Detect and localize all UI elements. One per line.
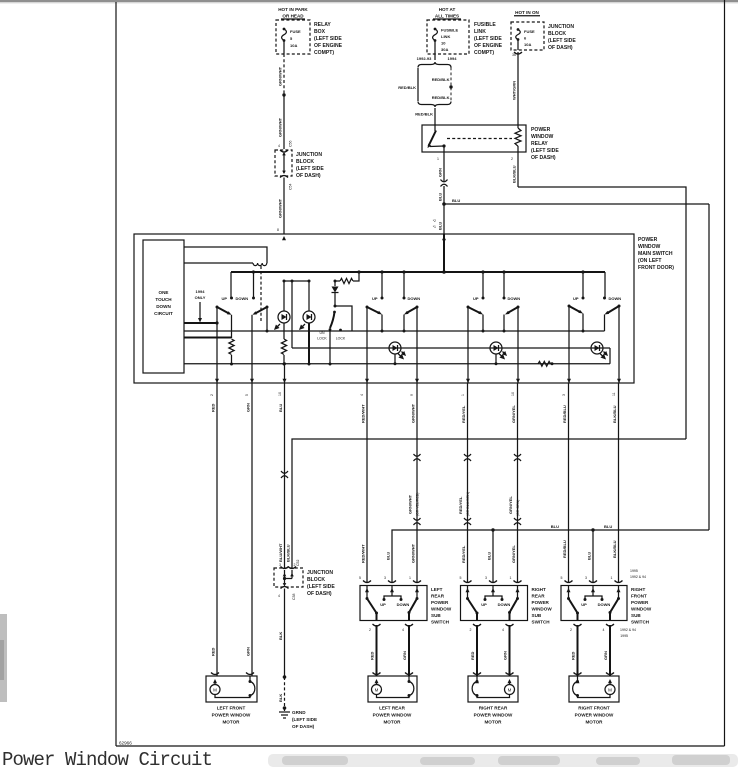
svg-text:ONE: ONE: [159, 290, 169, 295]
fusible link label: [474, 22, 503, 56]
svg-text:POWER: POWER: [531, 127, 551, 133]
svg-text:FUSIBLE: FUSIBLE: [474, 22, 496, 28]
svg-text:RED: RED: [211, 647, 216, 656]
svg-text:C52: C52: [296, 560, 300, 566]
wire GRN/YEL: [508, 383, 521, 583]
svg-text:M: M: [608, 688, 612, 693]
svg-text:JUNCTION: JUNCTION: [307, 570, 333, 576]
svg-text:GRN/YEL: GRN/YEL: [508, 496, 513, 514]
svg-text:LEFT: LEFT: [431, 587, 443, 592]
svg-text:62966: 62966: [119, 741, 132, 746]
svg-text:HOT IN ON: HOT IN ON: [515, 10, 539, 15]
relay coil: [515, 125, 521, 152]
wire BLU: [438, 186, 445, 204]
wire RED right rear motor: [470, 625, 477, 676]
svg-text:4: 4: [603, 628, 605, 632]
svg-text:MAIN SWITCH: MAIN SWITCH: [638, 251, 673, 257]
svg-text:UP: UP: [481, 602, 487, 607]
main bus: [231, 271, 605, 273]
svg-text:BLK: BLK: [278, 694, 283, 702]
diagram frame right border: [724, 0, 726, 746]
1994 ONLY note: [195, 289, 206, 323]
svg-text:(LEFT SIDE: (LEFT SIDE: [307, 584, 335, 590]
svg-text:BLU: BLU: [438, 222, 443, 230]
left rear sub switch label: [431, 587, 452, 625]
svg-text:BLOCK: BLOCK: [548, 31, 566, 37]
relay label: [531, 127, 559, 161]
wire GRN left rear motor: [402, 625, 409, 676]
svg-text:Power Window Circuit: Power Window Circuit: [2, 749, 212, 768]
svg-text:RED/BLK: RED/BLK: [415, 112, 433, 117]
svg-text:BOX: BOX: [314, 29, 326, 35]
year split brace: [417, 54, 458, 68]
header HOT AT ALL TIMES: [433, 7, 461, 19]
svg-text:JUNCTION: JUNCTION: [548, 24, 574, 30]
svg-text:LINK: LINK: [474, 29, 486, 35]
section 3 DOWN contact: [502, 270, 520, 301]
junction block lower label: [307, 570, 335, 597]
lamp return bus: [184, 348, 610, 365]
svg-text:OF DASH): OF DASH): [548, 45, 573, 51]
relay pin 2 wire BLK/BLU: [511, 152, 518, 187]
diagram frame bottom border: [116, 745, 725, 747]
pin numbers below main switch: [210, 392, 616, 396]
svg-text:BLK/BLU: BLK/BLU: [512, 165, 517, 183]
left front motor label: [212, 706, 251, 725]
svg-text:DOWN: DOWN: [397, 602, 410, 607]
svg-text:GRN/WHT: GRN/WHT: [411, 403, 416, 423]
svg-text:OF DASH): OF DASH): [292, 724, 315, 729]
svg-text:GRN/WHT: GRN/WHT: [278, 66, 283, 86]
svg-text:MOTOR: MOTOR: [383, 720, 401, 725]
svg-text:DOWN: DOWN: [408, 296, 421, 301]
right front sub switch label: [631, 587, 652, 625]
svg-text:POWER: POWER: [431, 600, 449, 605]
svg-text:1994: 1994: [196, 289, 206, 294]
wire GRN/WHT: [408, 383, 421, 583]
svg-text:RIGHT REAR: RIGHT REAR: [479, 706, 508, 711]
svg-text:FRONT: FRONT: [631, 594, 647, 599]
svg-text:BLU: BLU: [604, 524, 612, 529]
svg-text:10: 10: [511, 392, 515, 396]
svg-text:(ON LEFT: (ON LEFT: [638, 258, 662, 264]
ground: [279, 706, 317, 729]
svg-text:RED/BLU: RED/BLU: [562, 540, 567, 558]
svg-text:2: 2: [570, 628, 572, 632]
svg-text:10: 10: [278, 392, 282, 396]
wire WHT/GRN to relay coil: [512, 52, 523, 125]
sub-switch pin numbers: [359, 576, 613, 580]
svg-text:C56: C56: [289, 141, 293, 147]
power window main switch box: [134, 234, 634, 383]
svg-text:5: 5: [290, 36, 293, 41]
svg-text:GRN/YEL: GRN/YEL: [511, 545, 516, 563]
relay internal dashed link: [447, 138, 512, 140]
section 4 blades: [568, 305, 621, 315]
illumination return bus: [184, 330, 605, 333]
svg-text:RIGHT: RIGHT: [631, 587, 645, 592]
svg-text:MOTOR: MOTOR: [585, 720, 603, 725]
svg-text:1994: 1994: [448, 56, 458, 61]
svg-text:OF ENGINE: OF ENGINE: [474, 43, 503, 49]
svg-text:4: 4: [278, 594, 280, 598]
svg-text:*1: *1: [433, 225, 436, 229]
svg-text:(LEFT SIDE: (LEFT SIDE: [292, 717, 317, 722]
svg-text:GRN: GRN: [402, 651, 407, 660]
svg-text:RED/WHT: RED/WHT: [361, 404, 366, 423]
one touch down circuit box: [143, 240, 184, 373]
svg-text:2: 2: [369, 628, 371, 632]
wire GRN right rear motor: [503, 625, 510, 676]
note 1992-94 / 1995 right front: [620, 628, 636, 638]
svg-text:OR HEAD: OR HEAD: [282, 14, 304, 19]
svg-text:1995: 1995: [630, 569, 638, 573]
svg-text:OF DASH): OF DASH): [531, 155, 556, 161]
svg-text:BLK: BLK: [278, 632, 283, 640]
diode D1: [332, 281, 339, 308]
junction block fuse label: [548, 24, 576, 51]
svg-text:M: M: [375, 688, 379, 693]
power window relay box: [422, 125, 526, 152]
svg-text:SUB: SUB: [431, 613, 441, 618]
svg-text:BLK/BLU: BLK/BLU: [612, 405, 617, 423]
wire one-touch upper loop: [184, 247, 267, 263]
one touch 1994 link: [184, 321, 219, 383]
wire BLK/BLU: [612, 383, 619, 583]
svg-text:WINDOW: WINDOW: [532, 607, 553, 612]
svg-text:*2: *2: [433, 219, 436, 223]
svg-text:(LEFT SIDE: (LEFT SIDE: [548, 38, 576, 44]
svg-text:UN: UN: [319, 331, 325, 335]
svg-text:1992 & 94: 1992 & 94: [620, 628, 636, 632]
svg-text:BLU: BLU: [278, 404, 283, 412]
svg-text:8: 8: [277, 228, 279, 232]
svg-text:DOWN: DOWN: [236, 296, 249, 301]
main switch ground pin 10: [284, 364, 286, 383]
svg-text:1: 1: [461, 394, 465, 396]
svg-text:GRN: GRN: [438, 168, 443, 177]
svg-text:LEFT REAR: LEFT REAR: [379, 706, 405, 711]
svg-text:1992-93: 1992-93: [417, 56, 432, 61]
svg-text:10A: 10A: [290, 43, 297, 48]
wire GRN right front motor: [603, 625, 610, 676]
svg-text:JUNCTION: JUNCTION: [296, 152, 322, 158]
bus feed node: [442, 234, 446, 274]
svg-text:UP: UP: [581, 602, 587, 607]
svg-text:DOWN: DOWN: [156, 304, 171, 309]
svg-text:BLU: BLU: [452, 198, 460, 203]
svg-text:SWITCH: SWITCH: [532, 620, 551, 625]
svg-text:MOTOR: MOTOR: [484, 720, 502, 725]
svg-text:GRN: GRN: [246, 647, 251, 656]
left rear power window motor: [368, 673, 417, 703]
svg-text:POWER WINDOW: POWER WINDOW: [575, 713, 614, 718]
lock switch branch: [335, 306, 352, 331]
svg-text:OF ENGINE: OF ENGINE: [314, 43, 343, 49]
svg-text:WINDOW: WINDOW: [638, 244, 661, 250]
svg-text:BLK/BLU: BLK/BLU: [286, 544, 291, 562]
header HOT IN ON: [514, 10, 540, 16]
svg-text:BLK/BLU: BLK/BLU: [612, 540, 617, 558]
sub-switch connector arcs: [363, 581, 623, 583]
svg-text:30A: 30A: [441, 47, 448, 52]
wire BLK/BLU routing right and down: [518, 187, 686, 439]
main switch bottom pin arrows: [215, 379, 621, 383]
svg-text:POWER: POWER: [638, 237, 658, 243]
svg-text:RED: RED: [571, 651, 576, 660]
svg-text:5: 5: [245, 394, 249, 396]
svg-text:UP: UP: [473, 296, 479, 301]
wire RED left rear motor: [370, 625, 377, 676]
svg-text:POWER: POWER: [532, 600, 550, 605]
svg-text:2: 2: [210, 394, 214, 396]
svg-text:SUB: SUB: [631, 613, 641, 618]
wire RED/BLK 1994 branch (dashed): [432, 68, 453, 102]
driver blade drop wires: [217, 307, 267, 383]
resistor R2: [281, 339, 286, 366]
svg-text:GRN/YEL: GRN/YEL: [511, 405, 516, 423]
section 2 DOWN contact: [402, 270, 420, 301]
left rear sub switch: [360, 586, 427, 621]
left margin scan smudge: [0, 614, 7, 702]
svg-text:4: 4: [502, 628, 504, 632]
svg-text:9: 9: [410, 394, 414, 396]
svg-text:ALL TIMES: ALL TIMES: [435, 14, 459, 19]
fusible link box (dashed): [427, 20, 469, 54]
svg-text:BLU: BLU: [386, 552, 391, 560]
wire RED right front motor: [571, 625, 578, 676]
svg-text:GRN/WHT: GRN/WHT: [278, 198, 283, 218]
junction block upper (dashed): [275, 150, 292, 178]
svg-text:C38: C38: [292, 594, 296, 600]
svg-text:DOWN: DOWN: [498, 602, 511, 607]
right rear power window motor: [468, 673, 518, 703]
header HOT IN PARK: [278, 7, 308, 19]
svg-text:REAR: REAR: [532, 594, 546, 599]
svg-text:UP: UP: [380, 602, 386, 607]
wire GRN left front: [246, 383, 253, 676]
svg-text:M: M: [213, 688, 217, 693]
svg-text:1995: 1995: [620, 634, 628, 638]
main switch label: [638, 237, 674, 271]
wire BLK to ground: [278, 589, 296, 712]
svg-text:1: 1: [409, 576, 411, 580]
right rear sub switch label: [532, 587, 553, 625]
svg-text:RIGHT: RIGHT: [532, 587, 546, 592]
svg-text:RED/YEL: RED/YEL: [458, 496, 463, 514]
svg-text:FUSE: FUSE: [524, 29, 535, 34]
svg-text:FUSIBLE: FUSIBLE: [441, 28, 458, 33]
wire BLU to main switch: [433, 204, 446, 240]
svg-text:TOUCH: TOUCH: [155, 297, 172, 302]
svg-text:1: 1: [510, 576, 512, 580]
wire GRN/WHT: [283, 95, 285, 149]
junction block lower (dashed): [274, 567, 303, 589]
svg-text:RED/YEL: RED/YEL: [461, 405, 466, 423]
svg-text:HOT AT: HOT AT: [439, 7, 456, 12]
svg-text:BLU: BLU: [587, 552, 592, 560]
svg-text:10: 10: [441, 41, 446, 46]
driver switch blades: [216, 306, 269, 315]
junction block lower pins: [279, 560, 300, 567]
svg-text:RED: RED: [470, 651, 475, 660]
node splice: [282, 93, 285, 96]
svg-text:RED/WHT: RED/WHT: [361, 544, 366, 563]
svg-text:RED/BLK: RED/BLK: [432, 95, 450, 100]
right front sub switch: [561, 586, 627, 621]
relay box (dashed, fuse 5): [276, 20, 310, 54]
svg-text:RED/BLK: RED/BLK: [398, 85, 416, 90]
wire RED/YEL: [458, 383, 471, 583]
svg-text:LOCK: LOCK: [336, 337, 346, 341]
svg-text:HOT IN PARK: HOT IN PARK: [278, 7, 308, 12]
svg-text:5: 5: [359, 576, 361, 580]
svg-text:GRND: GRND: [292, 710, 306, 715]
svg-text:OF DASH): OF DASH): [307, 591, 332, 597]
svg-text:BLOCK: BLOCK: [307, 577, 325, 583]
svg-text:SWITCH: SWITCH: [631, 620, 650, 625]
wire GRN/WHT to main switch pin 8: [283, 178, 285, 235]
svg-text:RED/BLU: RED/BLU: [562, 405, 567, 423]
note 1995 / 1992-94: [630, 569, 646, 579]
svg-text:RED: RED: [370, 651, 375, 660]
junction block fuse box (dashed): [511, 22, 544, 50]
BLU distribution line: [386, 524, 710, 583]
svg-text:POWER WINDOW: POWER WINDOW: [212, 713, 251, 718]
svg-text:36: 36: [512, 53, 516, 57]
illumination lamp 5: [591, 342, 607, 359]
year merge brace: [418, 102, 451, 108]
section 2 blades: [366, 306, 419, 315]
section 4 wires: [569, 306, 619, 383]
svg-text:POWER: POWER: [631, 600, 649, 605]
inline connector: [441, 180, 448, 187]
wire BLU right side drop: [708, 204, 710, 530]
svg-text:5: 5: [460, 576, 462, 580]
inductor L1: [184, 263, 267, 266]
fuse 5 10A: [282, 28, 301, 54]
lamp cluster feed: [283, 280, 311, 349]
section 3 blades: [467, 306, 520, 315]
section 3 wires: [468, 307, 518, 383]
svg-text:(OR YEL/RED): (OR YEL/RED): [416, 493, 420, 516]
svg-text:4: 4: [402, 628, 404, 632]
section 2 wires: [367, 307, 417, 383]
svg-text:1992 & 94: 1992 & 94: [630, 575, 646, 579]
wire BLK/BLU routing left to junction block: [292, 439, 686, 568]
wire RED/BLK to relay: [415, 108, 435, 125]
svg-text:4: 4: [360, 394, 364, 396]
svg-text:LEFT FRONT: LEFT FRONT: [217, 706, 246, 711]
one touch lower link: [184, 337, 232, 339]
svg-text:3: 3: [585, 576, 587, 580]
relay switch contact: [428, 125, 446, 152]
svg-text:GRN/WHT: GRN/WHT: [278, 117, 283, 137]
svg-text:(LEFT SIDE: (LEFT SIDE: [474, 36, 502, 42]
section 4 DOWN contact: [603, 272, 621, 301]
svg-text:BLOCK: BLOCK: [296, 159, 314, 165]
resistor R1: [229, 339, 234, 366]
svg-text:(LEFT SIDE: (LEFT SIDE: [531, 148, 559, 154]
illumination lamp 4: [490, 342, 506, 365]
wire RED/WHT: [361, 383, 368, 583]
svg-text:RED/YEL: RED/YEL: [461, 545, 466, 563]
svg-text:RELAY: RELAY: [314, 22, 331, 28]
svg-text:FUSE: FUSE: [290, 29, 301, 34]
driver section DOWN contact: [236, 270, 256, 301]
left rear motor label: [373, 706, 412, 725]
svg-text:RIGHT FRONT: RIGHT FRONT: [578, 706, 610, 711]
svg-text:WHT/GRN: WHT/GRN: [512, 81, 517, 100]
node BLU splice: [442, 202, 446, 206]
svg-text:BLU: BLU: [487, 552, 492, 560]
dashed link driver switch: [260, 266, 262, 322]
svg-text:MOTOR: MOTOR: [222, 720, 240, 725]
svg-text:GRN: GRN: [603, 651, 608, 660]
svg-text:2: 2: [511, 157, 513, 161]
wire BLU feed to right side: [444, 198, 709, 204]
svg-text:4: 4: [278, 144, 280, 148]
svg-text:WINDOW: WINDOW: [531, 134, 554, 140]
wire BLU main switch ground: [278, 383, 288, 568]
fuse 6 10A: [516, 28, 535, 50]
svg-text:OF DASH): OF DASH): [296, 173, 321, 179]
svg-text:CIRCUIT: CIRCUIT: [154, 311, 173, 316]
svg-text:WINDOW: WINDOW: [631, 607, 652, 612]
svg-text:GRN: GRN: [246, 403, 251, 412]
svg-text:SWITCH: SWITCH: [431, 620, 450, 625]
wire RED/BLU: [562, 383, 569, 583]
svg-text:C54: C54: [289, 184, 293, 190]
section 4 UP contact: [573, 270, 585, 301]
junction block upper label: [296, 152, 324, 179]
wire GRN/WHT dashed segment: [283, 54, 285, 95]
relay pin 1 wire GRN: [437, 152, 444, 181]
wire RED/BLK 1992-93 branch: [417, 68, 419, 101]
svg-text:BLU: BLU: [551, 524, 559, 529]
svg-text:BLU: BLU: [438, 193, 443, 201]
svg-text:REAR: REAR: [431, 594, 445, 599]
svg-text:GRN: GRN: [503, 651, 508, 660]
svg-text:(OR BLU/GRN): (OR BLU/GRN): [466, 492, 470, 516]
svg-text:FRONT DOOR): FRONT DOOR): [638, 265, 674, 271]
svg-text:(OR GRN): (OR GRN): [516, 500, 520, 516]
wire RED left front: [211, 383, 218, 676]
svg-text:1: 1: [437, 157, 439, 161]
svg-text:UP: UP: [573, 296, 579, 301]
svg-text:3: 3: [384, 576, 386, 580]
relay box label: [314, 22, 343, 56]
svg-text:DOWN: DOWN: [508, 296, 521, 301]
diagram frame left border: [115, 2, 117, 746]
illumination lamp 1: [275, 281, 290, 339]
illumination lamp 3: [389, 342, 405, 365]
svg-text:10A: 10A: [524, 42, 531, 47]
illumination lamp 2: [300, 281, 315, 366]
svg-text:1: 1: [611, 576, 613, 580]
right front power window motor: [569, 673, 619, 703]
svg-text:RED: RED: [211, 403, 216, 412]
svg-text:6: 6: [524, 36, 527, 41]
lamp feed line: [292, 347, 610, 349]
svg-text:LINK: LINK: [441, 34, 450, 39]
svg-text:SUB: SUB: [532, 613, 542, 618]
lock switch: [317, 311, 346, 366]
right rear sub switch: [461, 586, 528, 621]
left front power window motor: [206, 673, 257, 703]
svg-text:DOWN: DOWN: [598, 602, 611, 607]
svg-text:M: M: [508, 688, 512, 693]
